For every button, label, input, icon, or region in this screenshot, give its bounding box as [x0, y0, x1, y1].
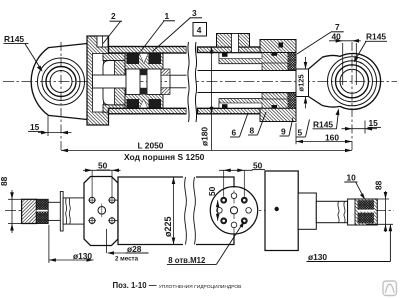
barrel top wall right (hatched strip)	[198, 47, 268, 53]
svg-text:88: 88	[0, 176, 9, 186]
svg-text:Ход поршня S 1250: Ход поршня S 1250	[124, 152, 205, 162]
svg-text:R145: R145	[4, 34, 24, 44]
barrel top wall left (hatched strip)	[109, 47, 187, 54]
barrel bottom view	[118, 177, 234, 245]
rear eye block hatched	[22, 199, 37, 223]
svg-text:8 отв.М12: 8 отв.М12	[168, 256, 206, 265]
rod left segment	[93, 75, 129, 88]
piston seal dark lower right	[149, 99, 162, 111]
piston seal dark lower left	[127, 99, 140, 111]
svg-text:ø28: ø28	[127, 244, 142, 254]
break gap	[187, 39, 197, 125]
dim o180	[211, 47, 213, 151]
piston lower hatch	[125, 94, 163, 111]
mounting flange plate	[84, 177, 118, 246]
port hole slot	[232, 34, 239, 53]
svg-text:ø130: ø130	[73, 251, 92, 261]
svg-text:15: 15	[30, 122, 40, 132]
gland nut crosshatch lower	[288, 93, 296, 108]
flange bolt hole 2	[109, 197, 115, 203]
rod break wavy	[338, 201, 345, 222]
svg-text:160: 160	[325, 132, 339, 142]
gland nut crosshatch upper	[288, 53, 296, 70]
front eye bushing rings	[328, 57, 377, 106]
svg-text:50: 50	[207, 186, 217, 196]
rear collar lower (hatched)	[103, 105, 125, 112]
label 4 boxed	[193, 23, 207, 37]
front eye block side view	[348, 199, 378, 225]
barrel bottom wall left (hatched strip)	[109, 108, 187, 114]
rear eye dark bushing	[36, 199, 48, 223]
wavy break line right	[195, 42, 196, 122]
svg-text:L 2050: L 2050	[138, 141, 164, 151]
front gland housing block	[265, 171, 298, 251]
bolt circle vertical centerline	[233, 180, 235, 235]
bolt hole dark 4	[241, 217, 248, 224]
rod mid segment	[170, 75, 187, 88]
svg-text:2: 2	[111, 11, 116, 21]
barrel break gap	[183, 176, 196, 246]
piston seal dark upper right	[149, 53, 162, 65]
svg-text:15: 15	[369, 118, 379, 128]
rod-to-head transition	[309, 58, 323, 106]
bolt circle end view	[210, 187, 257, 234]
center hole	[230, 207, 237, 214]
rod break wavy	[66, 198, 71, 224]
barrel bottom wall right (hatched strip)	[198, 108, 268, 114]
rod lower edge line	[198, 92, 297, 94]
piston seal dark upper left	[127, 53, 140, 65]
rear shaft	[48, 202, 61, 220]
front eye head outline	[322, 53, 381, 109]
rod bottom view	[316, 201, 347, 222]
bottom view centerline	[5, 210, 394, 212]
gland bush deep lower	[262, 93, 288, 99]
front eye vertical centerline	[351, 42, 353, 153]
rear collar upper (hatched)	[103, 53, 125, 60]
left eye bushing rings	[38, 58, 85, 105]
bolt hole plain left	[217, 208, 223, 214]
svg-text:R145: R145	[366, 32, 386, 42]
svg-text:4: 4	[197, 25, 202, 35]
svg-text:R145: R145	[313, 120, 333, 130]
bolt hole dark 2	[241, 197, 248, 204]
svg-text:8: 8	[250, 126, 255, 136]
svg-text:ø180: ø180	[200, 127, 210, 146]
barrel wavy line right	[194, 177, 196, 245]
svg-text:10: 10	[347, 173, 357, 183]
flange seal dot top	[279, 43, 284, 48]
rear cap inner recess	[93, 54, 104, 113]
piston hub left	[126, 69, 140, 95]
piston hub right	[147, 69, 161, 95]
rear cap (hatched)	[87, 36, 109, 125]
svg-text:1: 1	[165, 11, 170, 21]
step block	[298, 193, 316, 229]
front eye dark bushing bottom	[358, 213, 374, 224]
seal dot lower right	[272, 105, 278, 109]
spacer dark bottom	[140, 88, 147, 95]
svg-text:5: 5	[298, 128, 303, 138]
bolt hole plain bottom	[231, 222, 237, 228]
dim o125	[305, 57, 307, 69]
flange center hole	[98, 207, 106, 215]
watermark logo	[383, 281, 397, 296]
svg-text:50: 50	[253, 160, 263, 170]
spacer dark top	[140, 69, 147, 75]
left eye head outline	[31, 44, 87, 120]
rear cap top step	[97, 36, 108, 47]
rear rod	[63, 198, 84, 224]
left eye vertical centerline	[60, 42, 62, 152]
bolt hole dark 1	[220, 197, 227, 204]
collar column hatched	[115, 61, 126, 105]
port boss on top	[217, 34, 250, 48]
svg-text:50: 50	[98, 161, 108, 171]
svg-text:3: 3	[192, 8, 197, 18]
gland band upper (hatched)	[219, 53, 296, 64]
rear collar washer	[60, 192, 63, 232]
bolt hole plain right	[246, 208, 252, 214]
front eye hatched part	[355, 199, 377, 225]
guide ring top	[161, 69, 170, 75]
rod upper edge line	[198, 70, 297, 72]
flange bolt hole 4	[109, 218, 115, 224]
dim o225	[173, 177, 175, 245]
svg-text:6: 6	[232, 128, 237, 138]
guide ring bottom	[161, 88, 170, 95]
gland bush deep upper	[262, 63, 288, 71]
flange bolt hole 3	[89, 218, 95, 224]
seal dot upper left	[222, 53, 228, 57]
dim o130 left	[48, 225, 50, 263]
rod front segment	[296, 69, 309, 97]
seal dot upper right	[272, 52, 278, 56]
piston upper hatch	[125, 53, 163, 70]
dim 50 flange vertical	[115, 199, 138, 201]
bolt hole plain top	[231, 193, 237, 199]
svg-text:9: 9	[281, 127, 286, 137]
front eye dark bushing top	[358, 200, 374, 209]
gland white row lower	[219, 103, 262, 108]
white chevron upper	[139, 53, 149, 64]
barrel wavy line left	[185, 177, 187, 245]
svg-text:ø125: ø125	[297, 74, 306, 91]
svg-text:88: 88	[374, 180, 384, 190]
svg-text:ø130: ø130	[308, 252, 327, 262]
gland band lower (hatched)	[219, 99, 296, 109]
main horizontal centerline	[3, 81, 397, 83]
svg-text:ø225: ø225	[163, 216, 173, 237]
flange bolt hole 1	[89, 197, 95, 203]
front flange ring top	[260, 40, 296, 53]
svg-text:2 места: 2 места	[115, 255, 139, 262]
spherical bearing piece	[103, 61, 125, 105]
wavy break line left	[188, 42, 189, 122]
bolt hole dark 3	[220, 217, 227, 224]
front flange ring bottom	[260, 108, 296, 121]
white chevron lower	[139, 99, 149, 110]
gland white row upper	[219, 53, 262, 59]
port dot on block	[275, 207, 279, 211]
seal dot lower left	[222, 104, 228, 108]
